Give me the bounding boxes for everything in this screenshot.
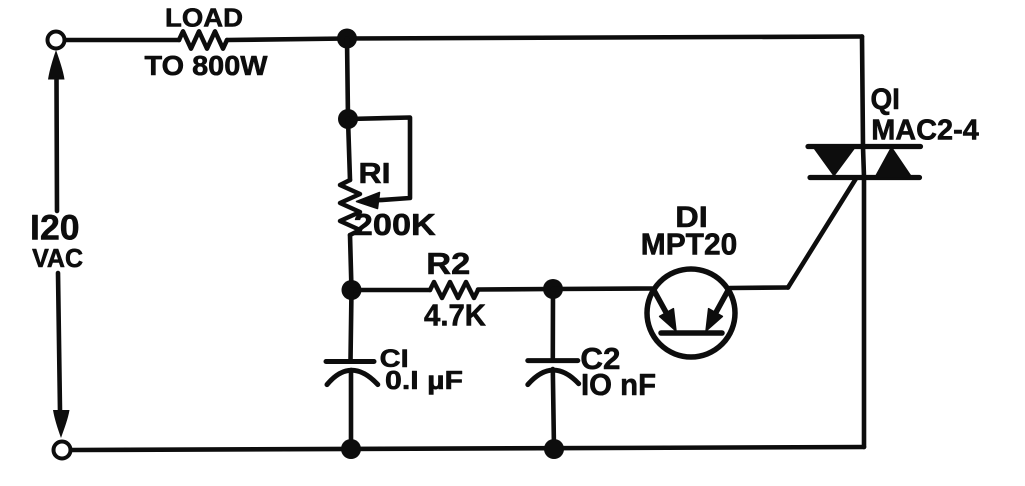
svg-text:I20: I20: [30, 209, 80, 248]
svg-text:IO nF: IO nF: [581, 368, 656, 402]
wire: gate diagonal to Q1: [788, 179, 856, 288]
wire: C1 bottom lead: [349, 370, 354, 449]
svg-text:200K: 200K: [354, 208, 436, 242]
wire: R2 left lead: [352, 288, 431, 293]
label 120 VAC: [30, 209, 83, 274]
wire: right rail lower (Q1 MT1 to bottom rail): [862, 177, 867, 447]
svg-text:QI: QI: [870, 83, 900, 116]
wire: top rail right segment: [347, 37, 862, 39]
resistor R2: [430, 282, 478, 298]
svg-text:MPT20: MPT20: [641, 227, 738, 262]
svg-text:RI: RI: [359, 158, 391, 190]
terminal: AC line bottom: [54, 442, 71, 459]
capacitor C1: [326, 362, 378, 385]
svg-text:LOAD: LOAD: [165, 3, 243, 33]
svg-text:4.7K: 4.7K: [424, 299, 486, 333]
wire: D1 to gate bend: [730, 285, 788, 290]
wire: C2 top lead: [550, 289, 555, 360]
wire: left source lead lower: [58, 273, 60, 411]
trigger device D1 (bilateral trigger MPT20): [647, 269, 735, 357]
wire: C2 bottom lead: [553, 369, 554, 449]
terminal: AC line top: [48, 32, 65, 49]
wire: R1 upper lead: [348, 119, 350, 180]
svg-text:MAC2-4: MAC2-4: [871, 115, 979, 147]
wire: C1 top lead: [351, 290, 352, 361]
wire: R2 right lead: [478, 287, 553, 292]
svg-text:VAC: VAC: [32, 245, 83, 273]
svg-text:TO 800W: TO 800W: [145, 50, 269, 81]
source arrow up (120 VAC): [48, 50, 65, 80]
junction dot: top rail / R1 branch: [337, 29, 357, 49]
wire: bottom rail: [72, 447, 864, 450]
resistor R1 (potentiometer body): [340, 180, 360, 235]
junction dot: bottom rail / C1: [341, 439, 361, 459]
wire: top rail left segment: [67, 38, 180, 43]
wire: node to D1: [553, 286, 652, 291]
R1 wiper arrowhead: [357, 193, 380, 209]
wire: R1 lower lead: [350, 235, 352, 290]
source arrow down (120 VAC): [53, 410, 70, 438]
wire: R1 branch from top rail: [347, 39, 348, 120]
triac Q1: [808, 147, 921, 179]
wire: top rail middle segment: [227, 39, 347, 41]
junction dot: R1 top / wiper loop: [338, 109, 358, 129]
resistor LOAD (series lamp load): [179, 31, 227, 48]
capacitor C2: [528, 361, 579, 385]
junction dot: node R2/C2/D1: [543, 279, 563, 299]
wire: left source lead upper: [54, 79, 59, 211]
wire: right rail upper (to Q1 MT2): [862, 37, 863, 148]
svg-text:0.I µF: 0.I µF: [385, 365, 463, 395]
junction dot: node R1/R2/C1: [342, 280, 362, 300]
svg-text:R2: R2: [426, 247, 470, 281]
wire: R1 wiper loop: [348, 118, 410, 201]
junction dot: bottom rail / C2: [544, 439, 564, 459]
